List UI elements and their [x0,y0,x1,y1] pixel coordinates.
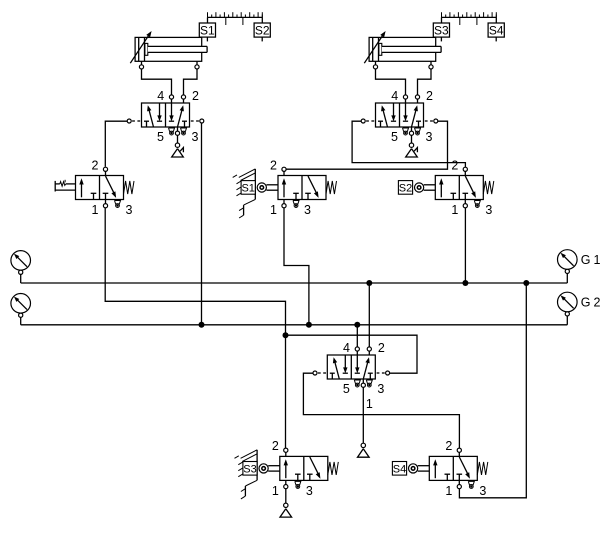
valve V3 5/2 impulse valve (central) [313,347,390,387]
svg-text:S2: S2 [255,24,270,38]
svg-text:2: 2 [378,341,385,355]
cylinder 1A (double-acting, adjustable cushioning) [130,31,207,69]
svg-text:2: 2 [594,296,601,310]
svg-text:1: 1 [451,203,458,217]
svg-text:2: 2 [451,158,458,172]
valve S3 label box [243,462,257,476]
svg-text:3: 3 [126,203,133,217]
bus 2 from valve S0 port 1 [105,208,285,336]
wire cyl1A left port to valve V1 port 4 [142,69,172,95]
wire valve S2 port 1 to bus G1 [464,208,466,283]
valve V1 port labels [157,89,199,144]
svg-text:S3: S3 [434,24,449,38]
valve S3 port labels [272,439,313,498]
svg-text:1: 1 [445,484,452,498]
valve V2 5/2 impulse valve [361,95,438,135]
wire gauge G2 to bus G2 [566,316,568,325]
svg-text:2: 2 [270,158,277,172]
svg-text:3: 3 [485,203,492,217]
svg-text:3: 3 [306,484,313,498]
valve S4 port labels [445,439,486,498]
svg-text:S4: S4 [393,463,406,475]
svg-text:2: 2 [272,439,279,453]
bus G2 horizontal (pressure line 2) [21,324,568,326]
valve S2 label box [398,181,412,195]
valve S4 label box [392,462,406,476]
valve S1 3/2 roller limit valve (actuated) [257,167,336,208]
junction V1 right pilot on bus G2 [199,322,205,328]
valve V1 5/2 impulse valve [127,95,204,135]
svg-text:S1: S1 [241,182,254,194]
junction S2 port1 on bus G1 [462,280,468,286]
proximity sensor S2 box [254,17,270,41]
wire gauge G1 to bus G1 [566,274,568,284]
wire V3 port 2 to bus G1 [368,283,370,347]
wire valve S1 port 1 to bus G2 [284,208,309,325]
svg-text:3: 3 [426,130,433,144]
cylinder 2A (double-acting, adjustable cushioning) [364,31,441,69]
wire cyl2A right port to valve V2 port 2 [418,69,432,95]
bus G1 horizontal (pressure line 1) [21,282,568,284]
wire V3 left pilot to valve S4 port 2 [303,373,459,448]
svg-text:5: 5 [391,130,398,144]
proximity sensor S4 box [488,17,504,41]
svg-text:2: 2 [192,89,199,103]
svg-text:1: 1 [270,203,277,217]
valve V2 port labels [391,89,433,144]
svg-text:4: 4 [343,341,350,355]
pressure gauge left top [11,251,31,275]
valve S1 label box [241,181,255,195]
valve V3 port labels [343,341,385,411]
valve S2 3/2 roller limit valve [415,167,494,208]
svg-text:S1: S1 [200,24,215,38]
valve S2 port labels [451,158,492,217]
junction S1 port1 on bus G2 [306,322,312,328]
wire gauge left bottom to bus G2 [20,317,22,325]
distance ruler for cylinder 2A [442,12,497,25]
proximity sensor S3 box [433,17,449,41]
svg-text:2: 2 [445,439,452,453]
svg-text:G: G [581,296,591,310]
valve S3 3/2 roller limit valve (actuated) [259,448,338,489]
air supply under valve V1 port 1 [172,135,184,157]
proximity sensor S1 box [199,17,215,41]
wire V1 right pilot down to bus G2 [201,123,203,325]
distance ruler for cylinder 1A [208,12,263,25]
junction S4 port1 on bus G1 [523,280,529,286]
wire node to central valve V3 right pilot [286,335,418,373]
wire gauge left top to bus G1 [20,274,22,283]
svg-text:2: 2 [426,89,433,103]
junction V3 port4 on bus G2 [354,322,360,328]
svg-text:1: 1 [272,484,279,498]
svg-text:5: 5 [157,130,164,144]
svg-text:1: 1 [92,203,99,217]
valve S3 mounting wall [235,450,258,499]
wire cyl2A left port to valve V2 port 4 [376,69,406,95]
label G 1 [581,253,601,267]
svg-text:S4: S4 [489,24,504,38]
junction bus2 node [283,332,289,338]
wire node down to valve S3 port 2 [285,335,287,448]
pressure gauge left bottom [11,294,31,318]
svg-text:G: G [581,253,591,267]
svg-text:S2: S2 [399,182,412,194]
svg-text:4: 4 [391,89,398,103]
svg-text:3: 3 [377,382,384,396]
wire valve S4 port 1 to bus G1 [459,283,526,498]
pressure gauge G2 right [558,292,578,316]
valve S0 port labels [92,158,133,217]
svg-text:S3: S3 [243,463,256,475]
wire V2 right pilot to valve S1 port 2 [286,121,447,169]
valve S0 3/2 manual start valve [55,167,134,208]
wire cyl1A right port to valve V1 port 2 [184,69,198,95]
wire V2 left pilot to valve S2 port 2 [352,121,465,167]
air supply under valve S3 port 1 [280,489,292,517]
svg-text:5: 5 [343,382,350,396]
pressure gauge G1 right [558,250,578,274]
wire V1 left pilot to valve S0 port 2 [105,121,127,167]
junction V3 port2 on bus G1 [366,280,372,286]
svg-text:4: 4 [157,89,164,103]
svg-text:1: 1 [366,397,373,411]
exhaust under valve V3 port 1 [358,443,370,457]
air supply under valve V2 port 1 [406,135,418,157]
valve S1 mounting wall [233,169,256,218]
svg-text:3: 3 [304,203,311,217]
svg-text:3: 3 [479,484,486,498]
svg-text:1: 1 [594,253,601,267]
valve S4 3/2 roller limit valve [409,448,488,489]
svg-text:2: 2 [92,158,99,172]
valve S1 port labels [270,158,311,217]
label G 2 [581,296,601,310]
wire V3 port 4 to bus G2 [356,325,358,347]
wire V3 port 1 down to exhaust [362,387,364,443]
svg-text:3: 3 [192,130,199,144]
